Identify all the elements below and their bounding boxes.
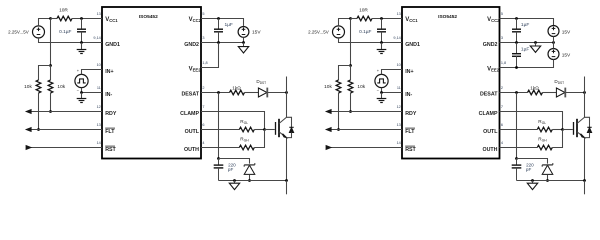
svg-text:2.25V...5V: 2.25V...5V (8, 29, 29, 34)
wire OUTL pin to R2e (500, 129, 538, 131)
wire R2b to FLT wire (338, 93, 340, 130)
IC U2 ISO5452 body (402, 7, 500, 159)
svg-text:6: 6 (501, 123, 503, 127)
junction R1b / FLT (37, 128, 40, 131)
transistor Q2 IGBT gate bar (573, 122, 575, 135)
svg-text:2.25V...5V: 2.25V...5V (308, 29, 329, 34)
junction gate node (561, 128, 564, 131)
wire FLT output (26, 129, 102, 131)
wire emitter stub down (286, 181, 288, 195)
resistor R2d 1k (528, 90, 543, 95)
power ground triangle on rail (234, 181, 236, 184)
diode D1a DDST high voltage (258, 88, 267, 97)
diode D2c freewheeling across Q2 (585, 117, 590, 127)
wire D2a cathode to collector (566, 92, 585, 94)
ground earth GND1 (81, 43, 83, 50)
voltage source VS1b 15V (238, 27, 249, 38)
wire GND2 rail (201, 42, 244, 44)
svg-text:14: 14 (97, 141, 101, 145)
pulse generator VG1 (75, 74, 88, 87)
svg-text:FLT: FLT (405, 129, 415, 135)
svg-text:1,8: 1,8 (202, 61, 207, 65)
svg-text:1kΩ: 1kΩ (232, 85, 241, 90)
ground earth VG1 (81, 93, 83, 99)
svg-text:15V: 15V (562, 29, 571, 35)
resistor R1f RGH (239, 145, 254, 150)
wire RDY output (326, 111, 402, 113)
svg-text:9,14: 9,14 (93, 36, 100, 40)
wire emitter stub down (584, 181, 586, 195)
svg-text:10k: 10k (57, 84, 65, 90)
diode D1b schottky clamp (244, 165, 255, 174)
voltage source VS2b +15V (548, 26, 559, 37)
svg-text:15V: 15V (562, 52, 571, 58)
arrow RST from controller (326, 146, 331, 150)
wire RST input (26, 147, 102, 149)
wire gate node to IGBT gate (563, 129, 573, 131)
wire R1c to RDY wire (50, 66, 52, 81)
svg-text:OUTH: OUTH (482, 147, 497, 153)
svg-text:14: 14 (397, 141, 401, 145)
svg-text:0.1µF: 0.1µF (359, 29, 371, 35)
wire VCC1 down to 10k pull-ups (350, 19, 352, 66)
svg-text:RST: RST (105, 147, 116, 153)
wire VS2c top (553, 43, 555, 49)
wire D1b to VEE2 rail (249, 174, 251, 180)
arrow FLT to controller (26, 128, 31, 132)
wire VG1 to IN- pin (82, 88, 103, 93)
U2 right pin numbers (501, 12, 506, 145)
svg-text:OUTL: OUTL (185, 129, 200, 135)
svg-text:10k: 10k (24, 84, 32, 90)
Q2 emitter lead with arrow (577, 132, 585, 181)
wire GND1 rail (39, 38, 103, 43)
wire RDY output (26, 111, 102, 113)
diode D2b schottky clamp (542, 165, 553, 174)
resistor R1c 10k pull-up RDY (48, 80, 53, 93)
wire 10k rail to R2b top (339, 66, 351, 81)
svg-text:12: 12 (97, 105, 101, 109)
capacitor C2a 0.1uF (381, 19, 383, 30)
wire 10k rail to R1b top (39, 66, 51, 81)
svg-text:1,8: 1,8 (501, 61, 506, 65)
svg-text:6: 6 (202, 123, 204, 127)
resistor R2e RGL (537, 127, 552, 132)
svg-text:FLT: FLT (105, 129, 115, 135)
svg-text:1µF: 1µF (521, 22, 529, 28)
svg-text:13: 13 (397, 12, 401, 16)
junction DESAT diode / collector line (285, 91, 288, 94)
svg-text:5: 5 (202, 12, 204, 16)
svg-text:VCC2: VCC2 (189, 17, 202, 23)
wire CLAMP to gate node (201, 112, 265, 130)
resistor R1b 10k pull-up FLT (36, 80, 41, 93)
resistor R2b 10k pull-up FLT (336, 80, 341, 93)
wire R1e to gate node (254, 129, 264, 131)
svg-text:10: 10 (397, 63, 401, 67)
svg-text:7: 7 (202, 105, 204, 109)
svg-text:5: 5 (501, 12, 503, 16)
junction rail / ground (531, 179, 534, 182)
svg-text:RDY: RDY (405, 111, 417, 117)
svg-text:11: 11 (97, 86, 101, 90)
resistor R2a 10R (357, 16, 372, 21)
junction DESAT / blanking cap (515, 91, 518, 94)
wire VS2b bottom to GND2 (553, 37, 555, 43)
junction VCC2 / C2b (515, 17, 518, 20)
junction D2b / rail (546, 179, 549, 182)
wire R2c to RDY wire (350, 66, 352, 81)
svg-text:10: 10 (97, 63, 101, 67)
junction GND1 / C2a / earth (380, 41, 383, 44)
svg-text:VEE2: VEE2 (487, 66, 500, 72)
wire D1a cathode to collector (268, 92, 287, 94)
capacitor C1b 1uF (218, 19, 220, 30)
junction DESAT / blanking cap (217, 91, 220, 94)
arrow RST from controller (26, 146, 31, 150)
svg-text:GND1: GND1 (105, 42, 120, 48)
wire D2b to VEE2 rail (547, 174, 549, 180)
wire R1a to VCC1 pin (72, 18, 102, 20)
resistor R1e RGL (239, 127, 254, 132)
wire VG1 to IN+ pin (82, 70, 103, 75)
capacitor C2b 1uF (516, 19, 518, 30)
svg-text:4: 4 (501, 141, 503, 145)
Q1 body bar (278, 119, 280, 137)
svg-text:2: 2 (501, 86, 503, 90)
svg-text:CLAMP: CLAMP (479, 111, 498, 117)
svg-text:ISO5452: ISO5452 (438, 14, 457, 20)
ground earth VG2 (381, 93, 383, 99)
wire VCC2 to supply (201, 19, 244, 26)
resistor R1d 1k (230, 90, 245, 95)
diode D2a DDST high voltage (556, 88, 565, 97)
ground earth GND1 (381, 43, 383, 50)
wire R2a to VCC1 pin (372, 18, 402, 20)
svg-text:GND1: GND1 (405, 42, 420, 48)
svg-text:VCC2: VCC2 (487, 17, 500, 23)
power ground GND2 triangle (243, 43, 245, 47)
wire VEE2 bottom rail (517, 180, 585, 182)
resistor R2f RGH (537, 145, 552, 150)
junction R1c / RDY (49, 110, 52, 113)
svg-text:RST: RST (405, 147, 416, 153)
svg-text:9,14: 9,14 (393, 36, 400, 40)
svg-text:IN-: IN- (405, 92, 412, 98)
voltage source VS2a 2.25V...5V (333, 26, 345, 38)
svg-text:CLAMP: CLAMP (180, 111, 199, 117)
arrow FLT to controller (326, 128, 331, 132)
junction IN- / earth (80, 91, 83, 94)
junction C1b / GND2 / VEE2 riser (217, 41, 220, 44)
svg-text:OUTL: OUTL (483, 129, 498, 135)
junction blanking cap node (217, 157, 220, 160)
svg-text:1µF: 1µF (521, 46, 529, 52)
junction emitter / rail (583, 179, 586, 182)
wire OUTL pin to R1e (201, 129, 239, 131)
wire VS1b bottom (243, 37, 245, 42)
wire GND2 rail (500, 42, 554, 44)
wire GND1 rail (339, 38, 403, 43)
transistor Q1 IGBT gate bar (275, 122, 277, 135)
wire VG2 to IN- pin (382, 88, 403, 93)
junction R2c / RDY (349, 110, 352, 113)
wire VCC1 down to 10k pull-ups (50, 19, 52, 66)
wire RST input (326, 147, 402, 149)
junction emitter / rail (285, 179, 288, 182)
svg-text:RDY: RDY (105, 111, 117, 117)
wire DESAT pin to network (201, 92, 230, 94)
Q1 emitter lead with arrow (279, 132, 287, 181)
IC U1 ISO5452 body (102, 7, 201, 159)
wire VG2 to IN+ pin (382, 70, 403, 75)
U1 right pin numbers (202, 12, 207, 145)
wire R1f to gate node (254, 130, 264, 148)
wire VCC1 node to resistor R2a (351, 18, 358, 20)
U1 left pin numbers (93, 12, 100, 145)
junction IN- / earth (380, 91, 383, 94)
svg-text:IN+: IN+ (105, 69, 113, 75)
svg-text:DESAT: DESAT (480, 92, 498, 98)
capacitor C2c 1uF (516, 43, 518, 54)
resistor R1a 10R (57, 16, 72, 21)
junction D1b / rail (248, 179, 251, 182)
wire CLAMP to gate node (500, 112, 563, 130)
capacitor C1d 220pF blanking (218, 159, 220, 166)
svg-text:1kΩ: 1kΩ (530, 85, 539, 90)
junction VCC1 / C1a (80, 17, 83, 20)
U2 left pin numbers (393, 12, 400, 145)
svg-text:pF: pF (228, 167, 234, 172)
svg-text:0.1µF: 0.1µF (59, 29, 71, 35)
wire OUTH pin to R1f (201, 147, 239, 149)
junction rail / ground (233, 179, 236, 182)
wire R2f to gate node (552, 130, 562, 148)
svg-text:13: 13 (97, 123, 101, 127)
svg-text:GND2: GND2 (184, 42, 199, 48)
junction gate node (263, 128, 266, 131)
svg-text:OUTH: OUTH (184, 147, 199, 153)
svg-text:10R: 10R (359, 7, 368, 13)
wire DESAT node down to blanking cap (516, 93, 518, 159)
wire R1b to FLT wire (38, 93, 40, 130)
junction C2b bottom / GND2 (515, 41, 518, 44)
svg-text:VCC1: VCC1 (105, 17, 118, 23)
wire gate node to IGBT gate (265, 129, 275, 131)
junction 10k rail (349, 64, 352, 67)
wire VCC1 node to resistor R1a (51, 18, 58, 20)
svg-text:13: 13 (97, 12, 101, 16)
svg-text:10R: 10R (59, 7, 68, 13)
voltage source VS2c -15V (548, 49, 559, 60)
pulse generator VG2 (375, 74, 388, 87)
svg-text:10k: 10k (357, 84, 365, 90)
Q2 body bar (576, 119, 578, 137)
wire VEE2 bottom rail (219, 180, 287, 182)
wire VEE2 tied to GND2 (201, 43, 219, 68)
junction VS2b / VS2c (552, 41, 555, 44)
junction VS1b / ground (242, 41, 245, 44)
svg-text:13: 13 (397, 123, 401, 127)
wire VS2a top to VCC1 node (339, 19, 351, 26)
junction VCC1 / C2a (380, 17, 383, 20)
voltage source VS1a 2.25V...5V (33, 26, 45, 38)
wire DESAT pin to network (500, 92, 528, 94)
wire R2e to gate node (552, 129, 562, 131)
power ground triangle on rail (532, 181, 534, 184)
wire R2d to diode D2a (543, 92, 557, 94)
wire VS1a top to VCC1 node (39, 19, 51, 26)
Q1 collector lead (279, 93, 287, 124)
svg-text:3: 3 (202, 36, 204, 40)
arrow RDY to controller (26, 110, 31, 114)
arrow RDY to controller (326, 110, 331, 114)
svg-text:15V: 15V (252, 30, 261, 36)
junction VCC1 rail / 10k pull-up rail (349, 17, 352, 20)
svg-text:2: 2 (202, 86, 204, 90)
junction GND2 / ground triangle (534, 41, 537, 44)
svg-text:3: 3 (501, 36, 503, 40)
diode D1c freewheeling across Q1 (287, 117, 292, 127)
svg-text:VCC1: VCC1 (405, 17, 418, 23)
power ground GND2 triangle (535, 43, 537, 47)
capacitor C1a 0.1uF (81, 19, 83, 30)
wire VCC2 to supply (500, 19, 554, 26)
svg-text:ISO5452: ISO5452 (139, 14, 158, 20)
svg-text:IN+: IN+ (405, 69, 413, 75)
svg-text:12: 12 (397, 105, 401, 109)
junction VCC2 / C1b (217, 17, 220, 20)
junction R2b / FLT (337, 128, 340, 131)
junction C2c bottom / VEE2 (515, 66, 518, 69)
wire FLT output (326, 129, 402, 131)
junction DESAT diode / collector line (583, 91, 586, 94)
svg-text:1µF: 1µF (225, 22, 233, 28)
svg-text:GND2: GND2 (483, 42, 498, 48)
junction VCC1 rail / 10k pull-up rail (49, 17, 52, 20)
wire DESAT node down to blanking cap (218, 93, 220, 159)
junction GND1 / C1a / earth (80, 41, 83, 44)
junction 10k rail (49, 64, 52, 67)
svg-text:DESAT: DESAT (181, 92, 199, 98)
wire blanking node to zener D1b (219, 159, 250, 164)
wire R1d to diode D1a (245, 92, 259, 94)
junction blanking cap node (515, 157, 518, 160)
svg-text:pF: pF (526, 167, 532, 172)
wire blanking node to zener D2b (517, 159, 548, 164)
capacitor C2d 220pF blanking (516, 159, 518, 166)
resistor R2c 10k pull-up RDY (348, 80, 353, 93)
wire collector stub up (584, 77, 586, 93)
wire collector stub up (286, 77, 288, 93)
svg-text:7: 7 (501, 105, 503, 109)
svg-text:VEE2: VEE2 (189, 66, 202, 72)
svg-text:11: 11 (397, 86, 401, 90)
Q2 collector lead (577, 93, 585, 124)
wire VEE2 rail (500, 60, 554, 68)
wire OUTH pin to R2f (500, 147, 538, 149)
svg-text:IN-: IN- (105, 92, 112, 98)
svg-text:4: 4 (202, 141, 204, 145)
svg-text:10k: 10k (324, 84, 332, 90)
